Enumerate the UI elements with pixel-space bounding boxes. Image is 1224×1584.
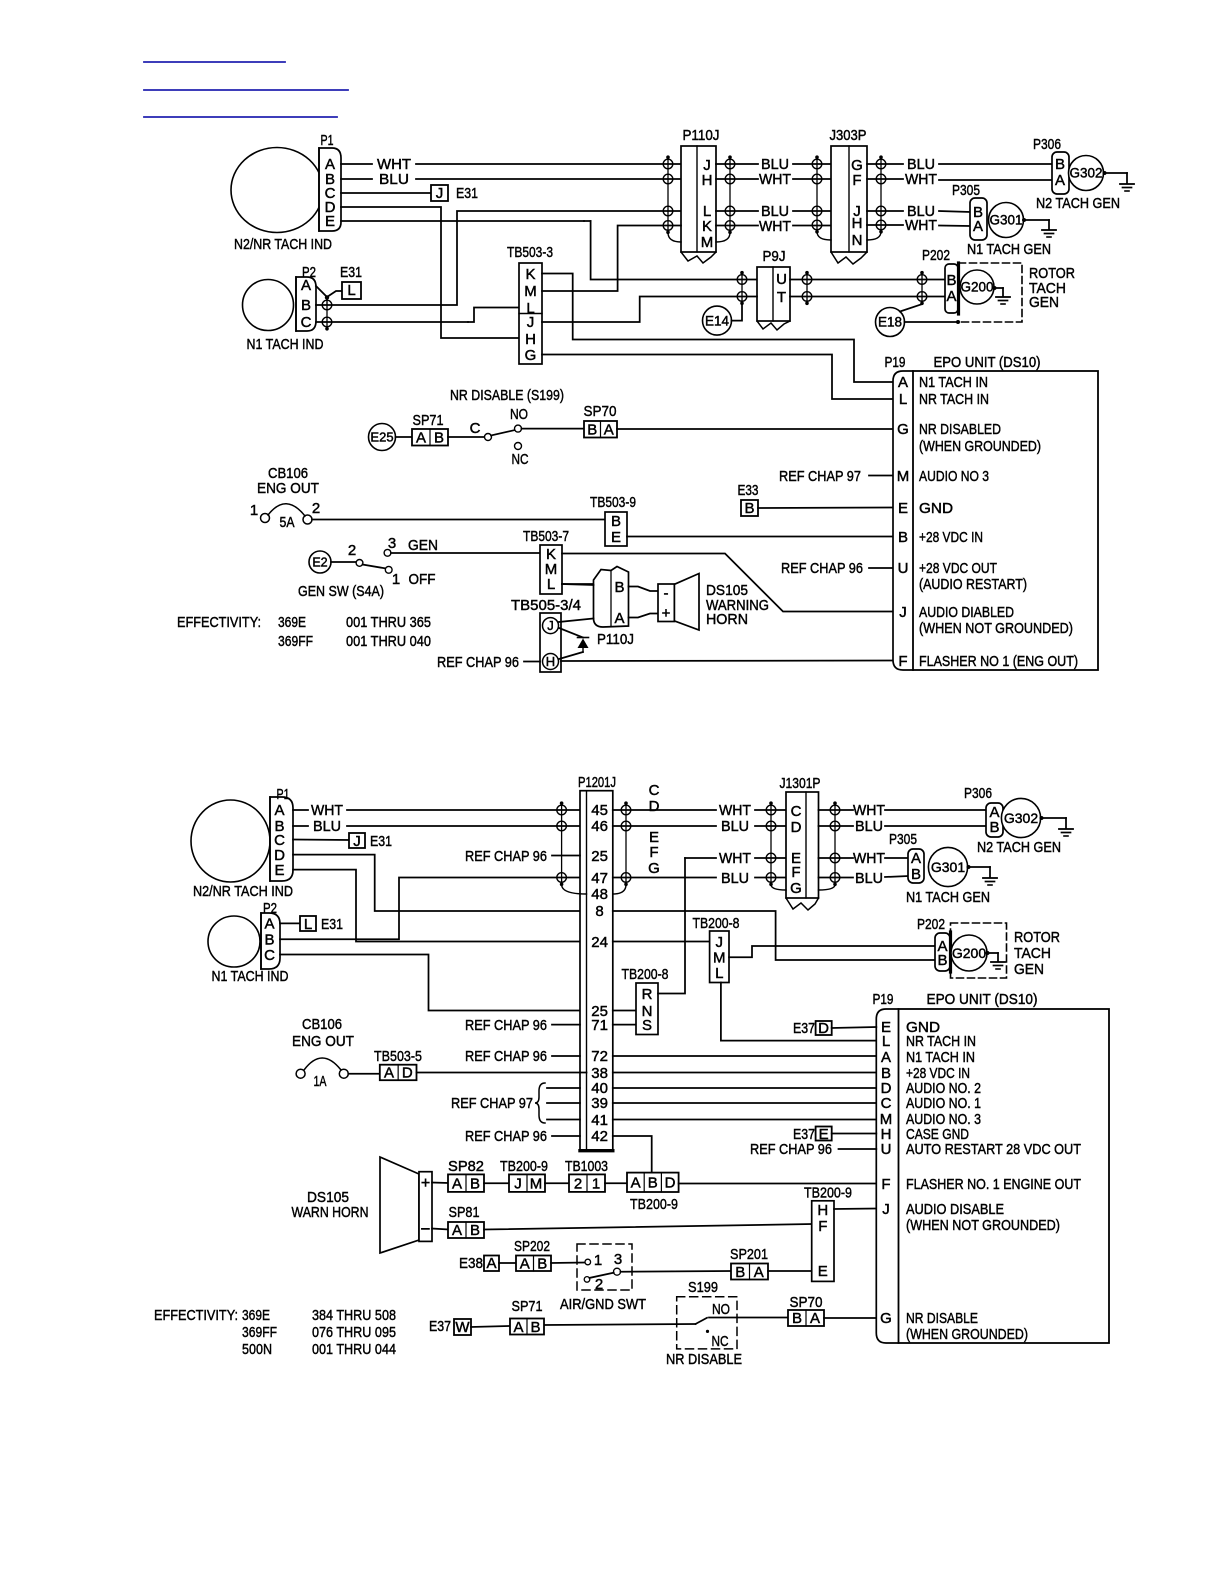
- svg-text:TB503-9: TB503-9: [590, 494, 636, 511]
- svg-text:S199: S199: [688, 1279, 718, 1296]
- svg-text:−: −: [421, 1220, 431, 1239]
- svg-text:M: M: [897, 468, 910, 485]
- svg-text:SP70: SP70: [584, 403, 617, 420]
- svg-text:E38: E38: [459, 1255, 483, 1272]
- svg-text:369E: 369E: [242, 1307, 270, 1324]
- svg-text:B: B: [792, 1310, 802, 1327]
- svg-text:NR DISABLED: NR DISABLED: [919, 421, 1001, 438]
- svg-text:N1 TACH IN: N1 TACH IN: [906, 1049, 975, 1066]
- svg-text:AUDIO DISABLE: AUDIO DISABLE: [906, 1201, 1004, 1218]
- svg-text:F: F: [881, 1176, 890, 1193]
- svg-text:G: G: [525, 347, 537, 364]
- svg-text:K: K: [702, 218, 712, 235]
- svg-text:N1 TACH GEN: N1 TACH GEN: [906, 889, 990, 906]
- svg-text:72: 72: [591, 1048, 608, 1065]
- svg-text:TB503-5: TB503-5: [374, 1048, 422, 1065]
- svg-text:+28 VDC IN: +28 VDC IN: [919, 529, 983, 546]
- svg-text:GEN: GEN: [1029, 294, 1059, 311]
- svg-text:SP81: SP81: [449, 1204, 480, 1221]
- svg-text:+: +: [421, 1175, 430, 1192]
- svg-text:C: C: [881, 1095, 892, 1112]
- svg-text:REF CHAP 96: REF CHAP 96: [781, 560, 863, 577]
- svg-text:B: B: [301, 297, 311, 314]
- svg-text:A: A: [264, 916, 274, 933]
- svg-text:NR TACH IN: NR TACH IN: [919, 391, 989, 408]
- svg-text:T: T: [777, 289, 786, 306]
- svg-text:B: B: [537, 1256, 547, 1273]
- svg-text:B: B: [470, 1222, 480, 1239]
- svg-text:E33: E33: [738, 482, 759, 499]
- svg-text:G: G: [897, 421, 909, 438]
- svg-text:8: 8: [595, 903, 603, 920]
- svg-text:J: J: [547, 618, 554, 633]
- svg-text:NR DISABLE (S199): NR DISABLE (S199): [450, 387, 564, 404]
- svg-text:1A: 1A: [314, 1073, 327, 1090]
- svg-text:41: 41: [591, 1112, 608, 1129]
- svg-text:TB200-9: TB200-9: [630, 1196, 678, 1213]
- svg-text:25: 25: [591, 848, 608, 865]
- svg-text:U: U: [898, 560, 909, 577]
- svg-text:BLU: BLU: [379, 171, 409, 188]
- svg-text:G302: G302: [1069, 166, 1102, 181]
- svg-text:B: B: [611, 513, 621, 530]
- svg-text:E18: E18: [878, 315, 902, 330]
- svg-text:(WHEN GROUNDED): (WHEN GROUNDED): [906, 1326, 1028, 1343]
- svg-text:REF CHAP 96: REF CHAP 96: [437, 654, 519, 671]
- svg-text:46: 46: [591, 818, 608, 835]
- svg-text:GND: GND: [919, 500, 953, 517]
- svg-text:1: 1: [592, 1175, 600, 1192]
- svg-text:3: 3: [388, 535, 396, 552]
- svg-text:D: D: [818, 1020, 829, 1037]
- svg-text:(AUDIO RESTART): (AUDIO RESTART): [919, 576, 1027, 593]
- svg-text:076 THRU 095: 076 THRU 095: [312, 1324, 396, 1341]
- svg-text:A: A: [898, 374, 908, 391]
- svg-text:A: A: [614, 610, 624, 627]
- svg-text:P110J: P110J: [597, 631, 634, 648]
- svg-text:001 THRU 040: 001 THRU 040: [346, 633, 431, 650]
- svg-text:B: B: [614, 579, 624, 596]
- svg-text:B: B: [937, 952, 947, 969]
- svg-text:3: 3: [614, 1251, 622, 1268]
- svg-text:NR TACH IN: NR TACH IN: [906, 1033, 976, 1050]
- svg-text:(WHEN NOT GROUNDED): (WHEN NOT GROUNDED): [919, 620, 1073, 637]
- svg-text:AUTO RESTART 28 VDC OUT: AUTO RESTART 28 VDC OUT: [906, 1141, 1081, 1158]
- svg-text:M: M: [524, 283, 537, 300]
- svg-text:WHT: WHT: [759, 171, 791, 188]
- svg-text:B: B: [1055, 156, 1065, 173]
- svg-text:J: J: [514, 1175, 522, 1192]
- svg-text:N2 TACH GEN: N2 TACH GEN: [1036, 195, 1120, 212]
- svg-text:1: 1: [392, 571, 400, 588]
- svg-text:1: 1: [250, 502, 258, 519]
- svg-text:REF CHAP 97: REF CHAP 97: [451, 1095, 533, 1112]
- svg-text:WHT: WHT: [905, 171, 937, 188]
- svg-text:E: E: [611, 529, 621, 546]
- svg-text:SP71: SP71: [512, 1298, 543, 1315]
- svg-text:J: J: [882, 1201, 890, 1218]
- svg-text:24: 24: [591, 934, 608, 951]
- svg-text:369E: 369E: [278, 614, 306, 631]
- svg-text:SP202: SP202: [514, 1238, 550, 1255]
- svg-text:N1 TACH IN: N1 TACH IN: [919, 374, 988, 391]
- svg-text:J: J: [353, 833, 361, 850]
- svg-text:369FF: 369FF: [242, 1324, 277, 1341]
- svg-text:C: C: [470, 420, 481, 437]
- svg-text:L: L: [347, 282, 355, 299]
- svg-text:A: A: [973, 218, 983, 235]
- svg-text:C: C: [264, 947, 275, 964]
- svg-text:P1201J: P1201J: [578, 774, 616, 791]
- svg-text:L: L: [715, 965, 723, 982]
- svg-text:E31: E31: [370, 833, 392, 850]
- svg-text:SP70: SP70: [790, 1294, 823, 1311]
- svg-text:TACH: TACH: [1014, 945, 1051, 962]
- svg-text:GEN: GEN: [408, 537, 438, 554]
- svg-text:D: D: [791, 819, 802, 836]
- svg-text:F: F: [649, 844, 658, 861]
- svg-text:A: A: [631, 1175, 641, 1192]
- svg-text:H: H: [546, 654, 555, 669]
- svg-text:WHT: WHT: [719, 802, 751, 819]
- svg-text:GEN SW (S4A): GEN SW (S4A): [298, 583, 384, 600]
- svg-text:B: B: [530, 1319, 540, 1336]
- svg-text:P19: P19: [885, 354, 906, 371]
- svg-text:42: 42: [591, 1128, 608, 1145]
- svg-text:A: A: [754, 1264, 764, 1281]
- svg-text:R: R: [642, 986, 653, 1003]
- svg-text:39: 39: [591, 1095, 608, 1112]
- svg-text:A: A: [1055, 172, 1065, 189]
- svg-text:A: A: [486, 1255, 496, 1272]
- svg-text:P110J: P110J: [683, 127, 720, 144]
- svg-text:A: A: [384, 1065, 394, 1082]
- svg-text:F: F: [852, 172, 861, 189]
- svg-text:REF CHAP 97: REF CHAP 97: [779, 468, 861, 485]
- svg-text:M: M: [530, 1175, 543, 1192]
- svg-text:(WHEN GROUNDED): (WHEN GROUNDED): [919, 438, 1041, 455]
- svg-text:BLU: BLU: [855, 870, 883, 887]
- svg-text:E: E: [274, 862, 284, 879]
- svg-text:B: B: [946, 272, 956, 289]
- svg-text:1: 1: [594, 1252, 602, 1269]
- svg-text:BLU: BLU: [721, 818, 749, 835]
- svg-text:G: G: [790, 880, 802, 897]
- svg-text:P306: P306: [1033, 136, 1061, 153]
- svg-text:45: 45: [591, 802, 608, 819]
- svg-text:2: 2: [348, 542, 356, 559]
- svg-text:D: D: [402, 1065, 413, 1082]
- svg-text:GEN: GEN: [1014, 961, 1044, 978]
- svg-text:SP201: SP201: [730, 1246, 768, 1263]
- svg-text:369FF: 369FF: [278, 633, 313, 650]
- svg-text:D: D: [649, 798, 660, 815]
- svg-text:E2: E2: [312, 555, 327, 569]
- svg-text:A: A: [452, 1222, 462, 1239]
- svg-text:U: U: [881, 1141, 892, 1158]
- svg-text:N1 TACH IND: N1 TACH IND: [247, 336, 324, 353]
- svg-text:2: 2: [595, 1276, 603, 1293]
- svg-text:G301: G301: [989, 213, 1022, 228]
- svg-text:AUDIO NO. 1: AUDIO NO. 1: [906, 1095, 981, 1112]
- svg-text:U: U: [776, 271, 787, 288]
- svg-text:B: B: [434, 430, 444, 447]
- svg-text:N2/NR TACH IND: N2/NR TACH IND: [234, 236, 332, 253]
- svg-text:WHT: WHT: [905, 217, 937, 234]
- svg-text:C: C: [649, 782, 660, 799]
- svg-text:B: B: [898, 529, 908, 546]
- svg-text:A: A: [520, 1256, 530, 1273]
- svg-text:L: L: [882, 1033, 890, 1050]
- svg-text:H: H: [525, 331, 536, 348]
- svg-text:J: J: [527, 314, 535, 331]
- svg-text:N: N: [852, 232, 863, 249]
- svg-text:E31: E31: [340, 264, 362, 281]
- svg-text:P202: P202: [922, 247, 950, 264]
- svg-text:N2/NR TACH IND: N2/NR TACH IND: [193, 883, 293, 900]
- svg-text:B: B: [735, 1264, 745, 1281]
- svg-text:TB505-3/4: TB505-3/4: [511, 597, 581, 614]
- svg-text:FLASHER NO. 1 ENGINE OUT: FLASHER NO. 1 ENGINE OUT: [906, 1176, 1081, 1193]
- svg-text:(WHEN NOT GROUNDED): (WHEN NOT GROUNDED): [906, 1217, 1060, 1234]
- svg-text:S: S: [642, 1017, 652, 1034]
- svg-text:P306: P306: [964, 785, 992, 802]
- svg-text:TB200-8: TB200-8: [693, 915, 740, 932]
- svg-text:F: F: [898, 653, 907, 670]
- svg-text:G302: G302: [1004, 810, 1038, 826]
- svg-text:ENG OUT: ENG OUT: [292, 1033, 354, 1050]
- svg-text:L: L: [304, 916, 312, 933]
- svg-text:WARN HORN: WARN HORN: [292, 1204, 369, 1221]
- svg-text:C: C: [791, 803, 802, 820]
- svg-text:H: H: [702, 172, 713, 189]
- svg-text:N2 TACH GEN: N2 TACH GEN: [977, 839, 1061, 856]
- svg-text:48: 48: [591, 886, 608, 903]
- svg-text:SP71: SP71: [413, 412, 444, 429]
- svg-text:H: H: [817, 1202, 828, 1219]
- svg-text:A: A: [911, 850, 921, 867]
- svg-text:AIR/GND SWT: AIR/GND SWT: [560, 1296, 646, 1313]
- svg-text:TB200-9: TB200-9: [804, 1185, 852, 1202]
- svg-text:J1301P: J1301P: [780, 775, 821, 792]
- svg-text:EPO UNIT (DS10): EPO UNIT (DS10): [927, 991, 1038, 1008]
- svg-text:HORN: HORN: [706, 611, 748, 628]
- svg-text:C: C: [301, 314, 312, 331]
- svg-text:5A: 5A: [280, 514, 295, 531]
- svg-text:G: G: [648, 860, 660, 877]
- svg-text:BLU: BLU: [313, 818, 341, 835]
- svg-text:BLU: BLU: [721, 870, 749, 887]
- svg-text:500N: 500N: [242, 1341, 272, 1358]
- svg-text:J303P: J303P: [830, 127, 867, 144]
- svg-text:NO: NO: [510, 406, 528, 423]
- svg-text:NC: NC: [512, 451, 529, 468]
- svg-text:W: W: [455, 1319, 470, 1336]
- svg-text:001 THRU 044: 001 THRU 044: [312, 1341, 396, 1358]
- svg-text:P19: P19: [873, 991, 894, 1008]
- svg-text:AUDIO DIABLED: AUDIO DIABLED: [919, 604, 1014, 621]
- svg-text:TB200-8: TB200-8: [622, 966, 669, 983]
- svg-text:47: 47: [591, 870, 608, 887]
- svg-text:A: A: [513, 1319, 523, 1336]
- svg-text:E37: E37: [429, 1318, 451, 1335]
- svg-text:BLU: BLU: [855, 818, 883, 835]
- svg-text:E14: E14: [705, 313, 730, 328]
- svg-text:TB503-3: TB503-3: [507, 244, 553, 261]
- svg-text:WHT: WHT: [853, 850, 885, 867]
- svg-text:E31: E31: [321, 916, 343, 933]
- svg-text:WHT: WHT: [853, 802, 885, 819]
- svg-text:A: A: [301, 277, 311, 294]
- svg-text:001 THRU 365: 001 THRU 365: [346, 614, 431, 631]
- svg-text:CB106: CB106: [302, 1016, 342, 1033]
- svg-text:E: E: [818, 1263, 828, 1280]
- svg-text:+: +: [662, 605, 671, 622]
- svg-text:NO: NO: [712, 1301, 730, 1318]
- svg-text:P1: P1: [277, 786, 290, 803]
- svg-text:B: B: [989, 819, 999, 836]
- svg-text:N1 TACH IND: N1 TACH IND: [212, 968, 289, 985]
- svg-text:REF CHAP 96: REF CHAP 96: [465, 1048, 547, 1065]
- svg-text:REF CHAP 96: REF CHAP 96: [465, 1128, 547, 1145]
- svg-text:REF CHAP 96: REF CHAP 96: [465, 848, 547, 865]
- svg-text:H: H: [852, 215, 863, 232]
- svg-text:P305: P305: [952, 182, 980, 199]
- svg-text:M: M: [713, 950, 726, 967]
- svg-text:EFFECTIVITY:: EFFECTIVITY:: [154, 1307, 238, 1324]
- svg-text:OFF: OFF: [409, 571, 436, 588]
- svg-text:2: 2: [312, 500, 320, 517]
- svg-text:G200: G200: [960, 280, 993, 295]
- svg-text:N1 TACH GEN: N1 TACH GEN: [967, 241, 1051, 258]
- svg-text:A: A: [416, 430, 426, 447]
- svg-text:D: D: [665, 1175, 676, 1192]
- svg-text:G: G: [880, 1310, 892, 1327]
- svg-text:384 THRU 508: 384 THRU 508: [312, 1307, 396, 1324]
- svg-text:G301: G301: [931, 859, 965, 875]
- svg-text:REF CHAP 96: REF CHAP 96: [750, 1141, 832, 1158]
- svg-text:REF CHAP 96: REF CHAP 96: [465, 1017, 547, 1034]
- svg-text:TB200-9: TB200-9: [500, 1158, 548, 1175]
- svg-text:B: B: [587, 422, 597, 439]
- svg-text:A: A: [452, 1175, 462, 1192]
- svg-text:TB503-7: TB503-7: [523, 528, 569, 545]
- svg-text:J: J: [436, 185, 444, 202]
- svg-text:+28 VDC OUT: +28 VDC OUT: [919, 560, 997, 577]
- svg-text:E: E: [325, 213, 335, 230]
- svg-text:K: K: [525, 266, 535, 283]
- svg-text:A: A: [881, 1049, 891, 1066]
- svg-text:SP82: SP82: [448, 1158, 484, 1175]
- svg-text:A: A: [946, 288, 956, 305]
- svg-text:P9J: P9J: [763, 248, 786, 265]
- svg-text:J: J: [899, 604, 907, 621]
- svg-text:P202: P202: [917, 916, 945, 933]
- svg-text:P305: P305: [889, 831, 917, 848]
- svg-text:A: A: [810, 1310, 820, 1327]
- svg-text:FLASHER NO 1 (ENG OUT): FLASHER NO 1 (ENG OUT): [919, 653, 1078, 670]
- svg-text:A: A: [274, 802, 284, 819]
- svg-text:NR DISABLE: NR DISABLE: [666, 1351, 742, 1368]
- svg-text:2: 2: [574, 1175, 582, 1192]
- svg-text:F: F: [791, 864, 800, 881]
- svg-text:71: 71: [591, 1017, 608, 1034]
- svg-text:A: A: [604, 422, 614, 439]
- svg-text:B: B: [470, 1175, 480, 1192]
- svg-text:P1: P1: [321, 132, 334, 149]
- svg-text:WHT: WHT: [759, 218, 791, 235]
- svg-text:WHT: WHT: [311, 802, 343, 819]
- svg-text:B: B: [744, 500, 754, 517]
- svg-text:E31: E31: [456, 185, 478, 202]
- svg-text:TB1003: TB1003: [565, 1158, 608, 1175]
- svg-text:NC: NC: [712, 1333, 729, 1350]
- svg-text:F: F: [818, 1218, 827, 1235]
- svg-text:E37: E37: [793, 1020, 815, 1037]
- svg-text:NR DISABLE: NR DISABLE: [906, 1310, 978, 1327]
- svg-text:L: L: [899, 391, 907, 408]
- svg-text:AUDIO NO 3: AUDIO NO 3: [919, 468, 989, 485]
- svg-text:B: B: [911, 866, 921, 883]
- svg-text:E25: E25: [370, 430, 393, 445]
- svg-text:ENG OUT: ENG OUT: [257, 480, 319, 497]
- svg-text:EFFECTIVITY:: EFFECTIVITY:: [177, 614, 261, 631]
- svg-text:WHT: WHT: [719, 850, 751, 867]
- svg-text:ROTOR: ROTOR: [1014, 929, 1060, 946]
- svg-text:B: B: [648, 1175, 658, 1192]
- svg-text:-: -: [664, 585, 669, 602]
- svg-text:L: L: [547, 576, 555, 593]
- svg-text:E: E: [898, 500, 908, 517]
- svg-text:EPO UNIT (DS10): EPO UNIT (DS10): [934, 354, 1041, 371]
- svg-text:G200: G200: [952, 945, 986, 961]
- svg-text:M: M: [701, 234, 714, 251]
